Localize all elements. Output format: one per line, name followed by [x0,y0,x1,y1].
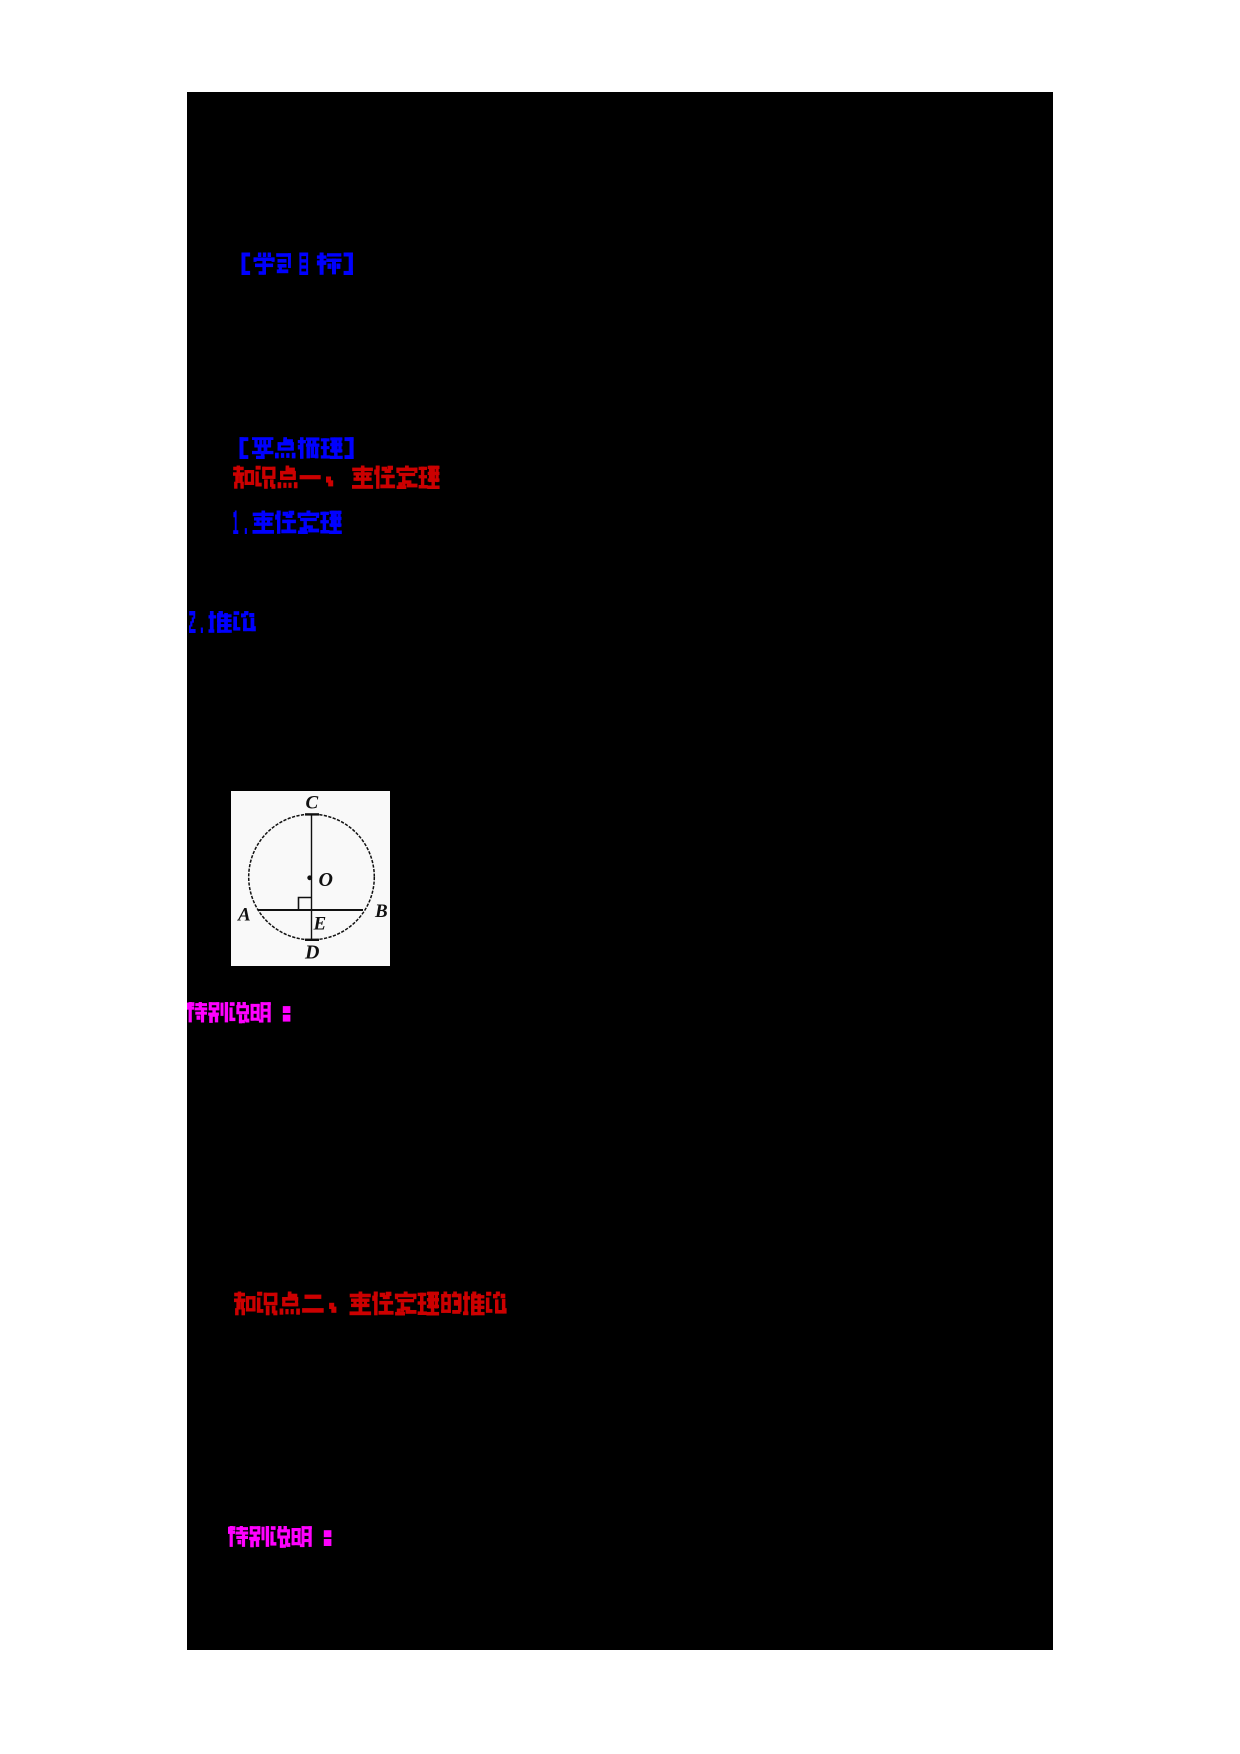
figure: white image box [231,791,390,966]
svg-text:C: C [306,793,319,814]
diameter CD [311,815,313,940]
svg-text:D: D [304,942,319,964]
document page background [187,92,1053,1650]
tebie shuoming 2 [228,1526,331,1548]
circle O [249,814,375,940]
svg-text:A: A [237,905,251,926]
tebie shuoming 1 [187,1002,290,1023]
svg-text:O: O [319,869,333,891]
heading yaodian shuli [240,437,354,459]
center dot O [307,875,312,880]
chord AB [258,909,364,911]
heading zhishidian er [234,1292,507,1316]
tick at D [305,939,319,941]
heading xuexi mubiao [242,253,353,276]
heading zhishidian yi [233,466,440,490]
svg-text:B: B [374,901,388,922]
svg-text:E: E [313,914,327,935]
right angle mark at E [299,898,312,911]
heading 2 tuilun [189,611,203,633]
heading 1 chuijing dingli [233,511,247,535]
tick at C [305,813,319,815]
